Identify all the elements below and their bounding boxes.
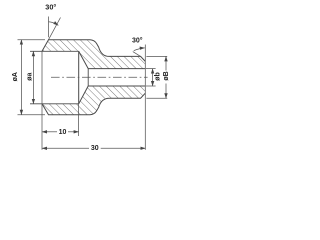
cone bottom bbox=[79, 86, 89, 104]
svg-text:10: 10 bbox=[59, 129, 67, 136]
svg-text:øB: øB bbox=[163, 71, 170, 80]
hatched section top half bbox=[42, 40, 145, 69]
right face + extensions up and down bbox=[144, 45, 146, 150]
svg-text:øA: øA bbox=[12, 72, 19, 81]
part outline bottom half bbox=[42, 93, 145, 115]
svg-text:30: 30 bbox=[91, 145, 99, 152]
ext line bore end down bbox=[78, 104, 80, 136]
bore end shoulder bbox=[78, 51, 80, 104]
right angle: chamfer ext bbox=[133, 52, 141, 57]
dim A extension top bbox=[18, 39, 46, 41]
svg-text:øa: øa bbox=[26, 73, 33, 81]
centerline bbox=[51, 76, 148, 78]
left face + extension line down to dims bbox=[41, 51, 43, 150]
dim B extension bottom bbox=[146, 97, 167, 99]
cone top bbox=[79, 51, 89, 68]
svg-text:30°: 30° bbox=[132, 36, 143, 44]
svg-text:30°: 30° bbox=[45, 3, 56, 12]
cone base stub bbox=[87, 69, 89, 86]
small bore top bbox=[88, 68, 145, 70]
dim line oB broken for label bbox=[165, 56, 167, 70]
dim A extension bottom bbox=[18, 114, 46, 116]
dim b extension top bbox=[146, 68, 156, 70]
right angle: arc with arrow bbox=[134, 48, 145, 51]
left angle: vertical ext bbox=[48, 17, 50, 38]
dim b extension bottom bbox=[146, 85, 156, 87]
dim line 30 broken for label bbox=[42, 147, 89, 149]
dim B extension top bbox=[146, 55, 167, 57]
part outline top half bbox=[42, 40, 145, 62]
bore top line (with oa extension to left) bbox=[30, 50, 79, 52]
hatched section bottom half bbox=[42, 86, 145, 115]
bore bottom line (with oa extension to left) bbox=[30, 103, 79, 105]
dim line 10 broken for label bbox=[42, 131, 57, 133]
dim line ob bbox=[152, 69, 154, 86]
svg-text:øb: øb bbox=[154, 72, 161, 81]
dim line oa bbox=[32, 51, 34, 104]
dim line oA bbox=[20, 40, 22, 115]
small bore bottom bbox=[88, 85, 145, 87]
left angle: arc with arrow bbox=[49, 22, 59, 26]
left angle: chamfer ext bbox=[49, 18, 61, 40]
